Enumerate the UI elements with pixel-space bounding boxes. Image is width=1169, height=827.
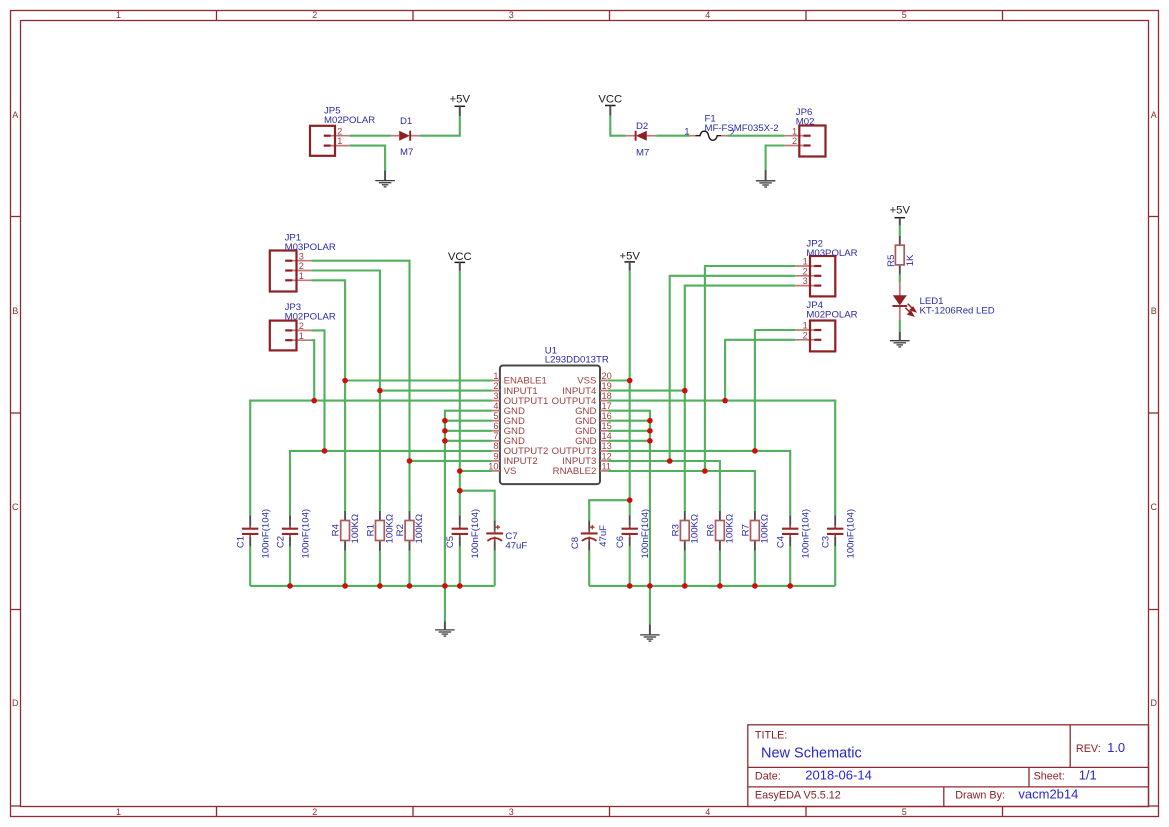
svg-text:D: D (12, 698, 19, 708)
junction bus C6 (627, 583, 633, 589)
wire INPUT4 row (pin 19) (608, 390, 685, 392)
svg-text:1/1: 1/1 (1079, 767, 1097, 782)
diode D1 M7 (391, 116, 420, 158)
resistor R4 100KΩ (331, 511, 361, 551)
junction VSS/+5V (627, 378, 633, 384)
svg-text:B: B (1151, 306, 1157, 316)
svg-text:5: 5 (902, 807, 907, 817)
power VCC (top) (598, 93, 622, 115)
wire JP1.3 to INPUT2 column (R2) (311, 261, 409, 511)
wire R4 to bus (344, 551, 346, 586)
capacitor C6 100nF(104) (615, 509, 651, 559)
wire right bus ground stem (649, 586, 651, 624)
junction bus R7 (752, 583, 758, 589)
svg-text:RNABLE2: RNABLE2 (553, 466, 597, 477)
svg-text:L293DD013TR: L293DD013TR (545, 355, 609, 366)
svg-text:1: 1 (116, 10, 121, 20)
wire OUTPUT4 row (pin 18) to C3 (608, 401, 835, 516)
svg-text:D: D (1150, 698, 1157, 708)
junction bus R2 (407, 583, 413, 589)
polarized capacitor C7 47uF (486, 521, 527, 552)
wire VSS row (pin 20) (608, 379, 630, 381)
wire JP6.2 to ground (766, 146, 785, 170)
junction INPUT2/R2 (407, 458, 413, 464)
capacitor C3 100nF(104) (821, 509, 857, 559)
svg-text:VCC: VCC (598, 93, 622, 105)
svg-text:M7: M7 (400, 147, 413, 158)
power +5V (top left) (450, 94, 471, 116)
svg-text:D2: D2 (636, 121, 648, 132)
wire INPUT2 row (pin 9) (410, 460, 492, 462)
junction OUTPUT2/JP3.2 (322, 448, 328, 454)
wire branch to C8 (589, 500, 630, 521)
svg-text:1: 1 (337, 136, 342, 146)
svg-text:C8: C8 (570, 537, 581, 549)
wire C8 to bus (588, 551, 590, 586)
svg-text:KT-1206Red LED: KT-1206Red LED (920, 306, 995, 317)
svg-text:1K: 1K (905, 254, 916, 266)
junction bus C4 (787, 583, 793, 589)
wire JP1.1 to ENABLE1 column (R4) (311, 280, 345, 511)
wire R7 to bus (754, 551, 756, 586)
svg-text:2: 2 (493, 381, 498, 391)
svg-text:+5V: +5V (890, 205, 911, 217)
svg-text:TITLE:: TITLE: (755, 730, 787, 742)
svg-text:1: 1 (792, 126, 797, 136)
wire C3 to bus (834, 546, 836, 586)
svg-text:R1: R1 (365, 524, 376, 536)
svg-text:Sheet:: Sheet: (1034, 771, 1065, 783)
svg-text:1: 1 (299, 271, 304, 281)
svg-text:100nF(104): 100nF(104) (801, 509, 812, 559)
wire JP4.1 to OUTPUT3 (755, 330, 795, 451)
wire JP5.1 to ground (350, 146, 385, 171)
svg-text:C6: C6 (615, 536, 626, 548)
svg-text:17: 17 (602, 401, 612, 411)
junction GND pin6 (442, 428, 448, 434)
wire RNABLE2 row (pin 11) to R7 (608, 471, 755, 511)
svg-text:R3: R3 (670, 524, 681, 536)
svg-text:2: 2 (299, 261, 304, 271)
wire GND row pin 7 (445, 440, 492, 442)
svg-text:10: 10 (488, 461, 498, 471)
polarized capacitor C8 47uF (570, 521, 609, 551)
wire VS row (pin 10) (460, 470, 492, 472)
svg-text:New Schematic: New Schematic (761, 746, 862, 762)
svg-text:16: 16 (602, 411, 612, 421)
svg-text:3: 3 (509, 10, 514, 20)
svg-text:100KΩ: 100KΩ (385, 514, 396, 544)
svg-text:A: A (1151, 110, 1157, 120)
svg-text:1: 1 (684, 127, 689, 137)
svg-text:3: 3 (493, 391, 498, 401)
junction bus R3 (682, 583, 688, 589)
svg-text:M7: M7 (636, 148, 649, 159)
svg-text:5: 5 (902, 10, 907, 20)
svg-text:C: C (12, 502, 19, 512)
svg-text:9: 9 (493, 451, 498, 461)
svg-text:C1: C1 (236, 536, 247, 548)
power +5V (LED column) (890, 205, 911, 226)
svg-text:R5: R5 (886, 255, 897, 267)
wire JP3.1 to OUTPUT1 row (311, 340, 314, 400)
svg-text:B: B (12, 306, 18, 316)
svg-text:4: 4 (705, 807, 710, 817)
svg-text:M02: M02 (796, 117, 815, 128)
wire C7 to bus (494, 551, 496, 586)
svg-text:2: 2 (299, 321, 304, 331)
svg-text:4: 4 (705, 10, 710, 20)
svg-text:6: 6 (493, 421, 498, 431)
wire left GND bus (250, 585, 495, 587)
wire VCC column down to C5 (459, 271, 461, 516)
ground right GND bus (640, 624, 660, 641)
connector JP6 M02 (785, 107, 826, 156)
svg-text:C: C (1150, 502, 1157, 512)
wire JP2.1 to RNABLE2 (705, 266, 795, 471)
svg-text:1: 1 (299, 331, 304, 341)
wire GND row pin 4 to gnd column (445, 411, 492, 586)
wire C4 to bus (789, 546, 791, 586)
capacitor C2 100nF(104) (275, 509, 311, 559)
svg-text:100nF(104): 100nF(104) (470, 509, 481, 559)
wire C6 to bus (629, 546, 631, 586)
junction bus gnd right (647, 583, 653, 589)
wire R1 to bus (379, 551, 381, 586)
junction bus gnd left (442, 583, 448, 589)
LED LED1 KT-1206Red LED (892, 283, 994, 320)
svg-text:+5V: +5V (450, 94, 471, 106)
svg-text:15: 15 (602, 421, 612, 431)
svg-text:A: A (12, 110, 18, 120)
junction GND pin16 (647, 418, 653, 424)
wire left bus ground stem (444, 586, 446, 621)
junction VCC/C7 branch (457, 488, 463, 494)
connector JP1 M03POLAR (270, 232, 336, 291)
wire C5 to bus (459, 546, 461, 586)
wire R5 to LED1 (899, 275, 901, 283)
svg-text:100KΩ: 100KΩ (690, 514, 701, 544)
svg-text:Date:: Date: (755, 771, 781, 783)
svg-text:20: 20 (602, 371, 612, 381)
wire JP5.2 to D1 anode (350, 135, 391, 137)
junction bus R4 (342, 583, 348, 589)
svg-text:C5: C5 (445, 536, 456, 548)
wire GND row pin 16 (608, 420, 650, 422)
wire right GND bus (589, 585, 835, 587)
resistor R1 100KΩ (365, 511, 395, 551)
junction GND pin7 (442, 438, 448, 444)
wire VCC to D2 cathode (610, 116, 625, 136)
junction GND pin5 (442, 418, 448, 424)
svg-text:1: 1 (116, 807, 121, 817)
junction bus R1 (377, 583, 383, 589)
svg-text:100KΩ: 100KΩ (350, 514, 361, 544)
wire branch to C7 (460, 491, 495, 521)
svg-text:Drawn By:: Drawn By: (955, 790, 1005, 802)
wire F1 pin2 to JP6.1 (727, 135, 784, 137)
svg-text:2: 2 (312, 10, 317, 20)
wire D1 cathode to +5V (420, 116, 460, 136)
wire OUTPUT3 row (pin 13) to C4 (608, 451, 790, 516)
junction INPUT1/R1 (377, 388, 383, 394)
svg-text:REV:: REV: (1076, 743, 1101, 755)
svg-text:100KΩ: 100KΩ (760, 514, 771, 544)
svg-text:R7: R7 (740, 524, 751, 536)
junction RNABLE2/JP2.1 (702, 468, 708, 474)
svg-text:M02POLAR: M02POLAR (324, 115, 375, 126)
resistor R3 100KΩ (670, 511, 700, 551)
svg-text:C4: C4 (776, 535, 787, 548)
svg-text:19: 19 (602, 381, 612, 391)
wire C1 to bus (249, 546, 251, 586)
junction INPUT4/R3 (682, 388, 688, 394)
connector JP5 M02POLAR (310, 106, 375, 156)
svg-text:100nF(104): 100nF(104) (846, 509, 857, 559)
wire GND row pin 6 (445, 430, 492, 432)
wire JP3.2 to OUTPUT2 row (311, 330, 324, 451)
svg-text:100nF(104): 100nF(104) (640, 509, 651, 559)
svg-text:C2: C2 (275, 536, 286, 548)
svg-text:MF-FSMF035X-2: MF-FSMF035X-2 (705, 123, 779, 134)
wire JP1.2 to INPUT1 column (R1) (311, 271, 380, 511)
svg-text:M02POLAR: M02POLAR (285, 312, 336, 323)
capacitor C5 100nF(104) (445, 509, 481, 559)
wire GND row pin 17 to gnd column (608, 411, 650, 586)
wire JP4.2 to OUTPUT4 (725, 340, 795, 401)
svg-text:1: 1 (803, 321, 808, 331)
svg-text:100nF(104): 100nF(104) (261, 509, 272, 559)
junction OUTPUT1/JP3.1 (311, 398, 317, 404)
svg-text:C3: C3 (821, 536, 832, 548)
wire ENABLE1 row (pin 1) (345, 379, 492, 381)
svg-text:M03POLAR: M03POLAR (806, 248, 857, 259)
svg-text:vacm2b14: vacm2b14 (1018, 787, 1078, 802)
wire INPUT3 row (pin 12) to R6 (608, 461, 720, 511)
svg-text:47uF: 47uF (598, 525, 609, 547)
junction bus R6 (717, 583, 723, 589)
svg-text:R6: R6 (705, 524, 716, 536)
svg-text:12: 12 (602, 451, 612, 461)
connector JP3 M02POLAR (270, 302, 336, 350)
wire GND row pin 14 (608, 440, 650, 442)
svg-text:7: 7 (493, 431, 498, 441)
svg-text:M02POLAR: M02POLAR (806, 310, 857, 321)
junction bus C2 (287, 583, 293, 589)
svg-text:11: 11 (602, 461, 612, 471)
wire +5V to R5 (899, 226, 901, 236)
ground below JP6 (756, 170, 776, 187)
wire R3 to bus (684, 551, 686, 586)
svg-text:M03POLAR: M03POLAR (285, 242, 336, 253)
power +5V (middle) (619, 251, 640, 271)
wire GND row pin 5 (445, 420, 492, 422)
svg-text:2018-06-14: 2018-06-14 (805, 767, 872, 782)
wire GND row pin 15 (608, 430, 650, 432)
svg-text:VS: VS (504, 466, 517, 477)
svg-text:2: 2 (803, 266, 808, 276)
junction GND pin14 (647, 438, 653, 444)
wire LED1 to ground (899, 320, 901, 332)
svg-text:D1: D1 (400, 116, 412, 127)
junction VS/VCC (457, 468, 463, 474)
svg-text:2: 2 (792, 136, 797, 146)
ground left GND bus (435, 621, 455, 636)
svg-text:4: 4 (493, 401, 498, 411)
ground below JP5 (375, 171, 395, 187)
svg-text:18: 18 (602, 391, 612, 401)
resistor R2 100KΩ (395, 511, 425, 551)
svg-text:1.0: 1.0 (1107, 740, 1125, 755)
wire INPUT1 row (pin 2) (380, 390, 492, 392)
ground below LED1 (890, 332, 910, 347)
diode D2 M7 (626, 121, 657, 159)
op-amp/driver IC U1 L293DD013TR (488, 345, 611, 484)
svg-text:47uF: 47uF (505, 541, 527, 552)
svg-text:2: 2 (803, 330, 808, 340)
svg-text:R4: R4 (331, 523, 342, 536)
svg-text:14: 14 (602, 431, 612, 441)
wire JP2.2 to INPUT3 (670, 276, 796, 461)
wire +5V column down to C6 (629, 271, 631, 516)
connector JP4 M02POLAR (795, 300, 857, 351)
wire D2 anode to F1 pin1 (656, 135, 689, 137)
junction ENABLE1/R4 (342, 378, 348, 384)
junction OUTPUT4/JP4.2 (722, 398, 728, 404)
connector JP2 M03POLAR (795, 238, 857, 296)
junction GND pin15 (647, 428, 653, 434)
wire R6 to bus (719, 551, 721, 586)
svg-text:1: 1 (493, 371, 498, 381)
wire R2 to bus (408, 551, 410, 586)
wire OUTPUT1 row (pin 3) to C1 (250, 401, 492, 516)
wire C2 to bus (289, 546, 291, 586)
svg-text:+5V: +5V (619, 251, 640, 263)
svg-text:100nF(104): 100nF(104) (300, 509, 311, 559)
resistor R7 100KΩ (740, 511, 770, 551)
svg-text:2: 2 (337, 126, 342, 136)
resistor R6 100KΩ (705, 511, 735, 551)
svg-text:2: 2 (312, 807, 317, 817)
junction INPUT3/JP2.2 (667, 458, 673, 464)
wire JP2.3 to INPUT4 column (R3) (685, 286, 796, 511)
svg-text:EasyEDA V5.5.12: EasyEDA V5.5.12 (755, 790, 841, 802)
junction +5V/C8 branch (627, 497, 633, 503)
svg-text:100KΩ: 100KΩ (414, 514, 425, 544)
resistor R5 1K (886, 236, 916, 275)
wire OUTPUT2 row (pin 8) to C2 (290, 451, 492, 516)
junction OUTPUT3/JP4.1 (752, 448, 758, 454)
svg-text:R2: R2 (395, 524, 406, 536)
svg-text:100KΩ: 100KΩ (725, 514, 736, 544)
svg-text:3: 3 (803, 276, 808, 286)
fuse F1 MF-FSMF035X-2 (684, 113, 778, 140)
svg-text:3: 3 (509, 807, 514, 817)
svg-text:8: 8 (493, 441, 498, 451)
power VCC (middle) (448, 251, 472, 270)
svg-text:5: 5 (493, 411, 498, 421)
capacitor C4 100nF(104) (776, 509, 812, 559)
svg-text:VCC: VCC (448, 251, 472, 263)
junction bus C5 (457, 583, 463, 589)
svg-text:13: 13 (602, 441, 612, 451)
capacitor C1 100nF(104) (236, 509, 272, 559)
